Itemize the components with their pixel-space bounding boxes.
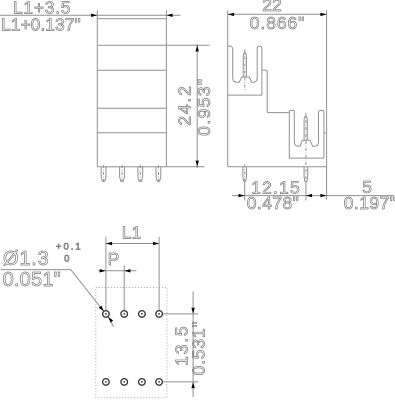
13.5 dimension line — [192, 292, 194, 398]
extension verticals from holes — [105, 237, 107, 311]
body right edge + extensions — [326, 10, 328, 199]
svg-text:+0.1: +0.1 — [56, 241, 83, 252]
svg-text:0.478": 0.478" — [247, 193, 299, 213]
L1+3.5 dimension line — [0, 14, 181, 16]
bottom solder pins — [243, 167, 247, 181]
lower clamp cavity & walls — [289, 110, 324, 158]
svg-text:Ø1.3: Ø1.3 — [3, 248, 50, 270]
internal line 1 + extension to 24.2 dim — [97, 44, 209, 46]
svg-text:0.953": 0.953" — [194, 77, 214, 135]
pins — [101, 167, 106, 182]
extension horizontals for 13.5 — [163, 313, 199, 315]
centerline tails below pins — [244, 182, 246, 201]
centerlines right view — [245, 50, 306, 183]
internal line 4 — [97, 132, 166, 134]
svg-text:0.531": 0.531" — [189, 321, 209, 376]
body bottom — [228, 166, 327, 168]
svg-text:24.2: 24.2 — [175, 84, 195, 125]
svg-text:0: 0 — [64, 254, 69, 265]
svg-text:P: P — [108, 249, 120, 269]
24.2 dimension line — [196, 44, 198, 168]
arrow 5 right (inside pointing outward) — [320, 194, 326, 197]
internal line 2 — [97, 69, 166, 71]
lower chamber left wall + bottom — [289, 113, 324, 159]
upper pin blade — [243, 52, 246, 76]
svg-text:L1: L1 — [122, 223, 141, 243]
bottom extension to 24.2 dim — [166, 166, 204, 168]
svg-text:L1+0.137": L1+0.137" — [1, 15, 81, 35]
body left edge + extension up — [227, 10, 229, 167]
dashed outline rectangle — [96, 288, 167, 398]
arrows bottom view — [99, 242, 195, 388]
pin centerlines — [104, 165, 159, 184]
12.15 / 5 dimension line — [232, 195, 394, 197]
upper chamber bottom — [228, 94, 262, 96]
leader arrows at hole — [99, 306, 104, 312]
step to lower level — [262, 70, 289, 113]
arrows 12.15 (outside pointing inward) — [239, 194, 245, 197]
22 dimension line — [228, 13, 327, 15]
body outline — [97, 19, 166, 167]
internal line 3 — [97, 107, 166, 109]
svg-text:0.197": 0.197" — [344, 193, 395, 213]
leader to hole — [71, 270, 104, 312]
arrows for 24.2 (inside, pointing outward) — [196, 45, 199, 51]
P dimension line — [98, 270, 136, 272]
upper clamp cavity & walls — [228, 46, 262, 95]
L1 inside outward — [106, 242, 112, 245]
notch to right edge — [324, 132, 327, 134]
L1 dimension line — [106, 243, 159, 245]
holes — [103, 311, 163, 386]
arrows for L1+3.5 (outside, pointing inward) — [91, 14, 199, 167]
13.5 outside inward — [191, 308, 194, 314]
svg-text:0.051": 0.051" — [3, 269, 61, 291]
extension lines above for L1+3.5 — [96, 10, 98, 19]
svg-text:0.866": 0.866" — [250, 13, 305, 33]
P outside inward — [100, 269, 106, 272]
arrows 22 (inside pointing outward) — [228, 13, 327, 198]
lower pin blade — [304, 116, 307, 140]
diameter text underline — [1, 269, 71, 271]
